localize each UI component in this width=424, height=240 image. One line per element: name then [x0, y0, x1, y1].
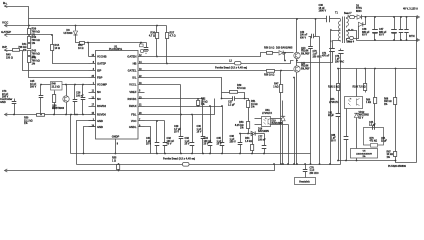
svg-text:22 V: 22 V — [359, 117, 364, 119]
svg-text:R70: R70 — [370, 138, 375, 140]
svg-text:NC: NC — [97, 97, 101, 101]
svg-text:25 V: 25 V — [174, 131, 179, 134]
wire VREF net — [145, 98, 203, 100]
svg-text:2.2 µF: 2.2 µF — [228, 103, 235, 106]
junction dot Q13 drain on B+ rail — [296, 18, 298, 20]
diode D9 bootstrap — [140, 43, 144, 53]
svg-text:GATEL: GATEL — [128, 69, 137, 73]
wire gate bypass branch — [284, 52, 286, 62]
wire secondary pin 13 to bead4 — [347, 39, 350, 41]
wire VCOMP net — [41, 84, 89, 86]
svg-text:250 V: 250 V — [230, 141, 237, 144]
capacitor C26 — [73, 85, 84, 115]
svg-text:ISL: ISL — [132, 76, 137, 80]
svg-text:D20 BAV19WS: D20 BAV19WS — [276, 47, 293, 50]
svg-text:Q13: Q13 — [301, 48, 306, 50]
transistor Q13 — [294, 19, 310, 66]
node GATEP connector — [1, 30, 11, 36]
wire VCCL net — [145, 84, 181, 86]
svg-text:ISP: ISP — [97, 69, 102, 73]
svg-text:PI-5428-050809: PI-5428-050809 — [388, 165, 407, 168]
op-amp U1 PLC810PG controller IC body — [96, 45, 139, 139]
wire controller ground rail right — [45, 114, 89, 116]
wire FBL net — [145, 99, 215, 115]
svg-text:FBL: FBL — [131, 113, 137, 117]
resistor R37 — [166, 26, 176, 65]
svg-text:VCCL: VCCL — [129, 83, 137, 87]
capacitor C79 — [308, 37, 322, 165]
capacitor C78 — [303, 165, 319, 178]
pin 15 RSVD0 of U1 — [89, 113, 107, 117]
pin 25 FBP of U1 — [89, 76, 103, 80]
svg-text:GNDP: GNDP — [112, 134, 120, 138]
wire GATEL net — [145, 70, 267, 72]
capacitor C71 resonant — [297, 41, 341, 63]
svg-text:GND: GND — [0, 100, 6, 104]
svg-text:25 V: 25 V — [217, 143, 222, 146]
wire reference bus — [339, 160, 396, 162]
wire main bottom ground bus — [77, 164, 341, 166]
diode D3 — [355, 6, 363, 20]
svg-text:50 V: 50 V — [331, 140, 336, 142]
wire B+ rail — [29, 18, 327, 20]
svg-text:200 V: 200 V — [30, 86, 37, 89]
svg-text:GATEH: GATEH — [127, 55, 136, 59]
wire GND pin 2 return — [70, 114, 72, 154]
svg-text:FB16N: FB16N — [301, 51, 309, 53]
resistor R43 — [28, 50, 40, 59]
svg-text:LTV817A: LTV817A — [262, 112, 272, 115]
wire sense column — [293, 77, 295, 165]
svg-text:R58 10 Ω: R58 10 Ω — [264, 74, 274, 77]
svg-text:1 Ω: 1 Ω — [112, 159, 116, 162]
capacitor C34 — [204, 107, 213, 154]
svg-text:C88: C88 — [331, 135, 336, 137]
svg-text:182 kΩ: 182 kΩ — [384, 101, 392, 103]
pin 16 VCCL of U1 — [129, 83, 144, 87]
capacitor C40 — [300, 31, 316, 39]
resistor R36 — [149, 26, 159, 58]
svg-text:ISP: ISP — [2, 45, 7, 49]
svg-text:FBP: FBP — [97, 76, 103, 80]
wire VCC net — [145, 120, 165, 122]
pin 7 VCC of U1 — [131, 119, 145, 123]
svg-text:R102 2 kΩ: R102 2 kΩ — [328, 87, 339, 89]
svg-text:25 V: 25 V — [204, 143, 209, 146]
wire RTN rail — [357, 40, 417, 42]
wire inner ground line — [71, 153, 311, 155]
diode D19 — [272, 101, 286, 165]
svg-text:10 Ω: 10 Ω — [78, 47, 83, 50]
node ISP connector — [2, 45, 7, 51]
svg-text:C76: C76 — [335, 56, 340, 58]
pin 9 GNDL of U1 — [129, 125, 145, 129]
wire bootstrap — [85, 42, 147, 44]
svg-text:NC: NC — [97, 90, 101, 94]
svg-text:R67: R67 — [387, 152, 392, 154]
wire output sense column — [416, 17, 418, 163]
wire secondary pin 7 to bead — [347, 17, 350, 18]
svg-text:GND: GND — [97, 125, 103, 129]
svg-text:R56 10 Ω: R56 10 Ω — [264, 47, 274, 50]
svg-text:2%: 2% — [362, 156, 365, 158]
node 48V output — [403, 8, 420, 19]
svg-text:VCCHB: VCCHB — [97, 55, 107, 59]
capacitor C77 — [258, 134, 266, 154]
svg-text:63 V: 63 V — [379, 34, 384, 37]
svg-text:VCC: VCC — [131, 119, 137, 123]
resistor R46 — [28, 57, 40, 66]
svg-text:8R06: 8R06 — [356, 11, 362, 13]
svg-text:VREF: VREF — [129, 90, 137, 94]
pin 8 GATEP of U1 — [89, 62, 107, 66]
svg-text:Ferrite Bead (3.5 x 4.45 ea): Ferrite Bead (3.5 x 4.45 ea) — [163, 156, 195, 160]
capacitor C30 — [197, 98, 206, 153]
pin 14 HB of U1 — [133, 61, 145, 66]
svg-text:2.2 µF: 2.2 µF — [369, 125, 376, 127]
resistor R41 — [18, 43, 30, 52]
svg-text:D18: D18 — [258, 129, 263, 131]
svg-text:50LPBF: 50LPBF — [301, 68, 310, 70]
svg-text:63 V: 63 V — [362, 34, 367, 37]
capacitor C76 — [335, 49, 344, 165]
svg-text:Heatsink: Heatsink — [299, 181, 310, 184]
wire controller ground rail — [5, 114, 37, 116]
svg-text:R68: R68 — [384, 99, 389, 101]
resistor R47 1k gate pulldown — [273, 70, 282, 165]
svg-text:100 nF: 100 nF — [258, 138, 266, 141]
pin 12 NC of U1 — [89, 97, 101, 101]
diode D8 — [64, 25, 78, 35]
capacitor C27 — [222, 93, 249, 107]
wire bulk rail drop — [315, 18, 320, 164]
svg-text:630 V: 630 V — [300, 37, 306, 39]
pin 17 RSVD2 of U1 — [89, 104, 107, 108]
wire VCC rail — [5, 25, 167, 27]
wire GND pin 19b return — [83, 127, 96, 155]
wire secondary center tap to RTN — [347, 31, 357, 41]
svg-text:B+: B+ — [3, 1, 7, 5]
svg-text:FB16N: FB16N — [301, 66, 309, 68]
resistor R100 — [353, 69, 367, 91]
diode D18 — [241, 129, 270, 136]
zener diode VR12 — [354, 112, 369, 161]
transistor Q20 — [52, 85, 69, 115]
svg-text:48 V, 3.125 A: 48 V, 3.125 A — [403, 8, 418, 11]
pin 20 FBL of U1 — [131, 113, 144, 117]
resistor R58 — [264, 70, 294, 77]
svg-text:VCC: VCC — [2, 21, 9, 25]
wire C36 to transformer — [330, 18, 341, 20]
svg-text:10 kΩ: 10 kΩ — [387, 154, 393, 156]
junction dots ground rail — [13, 114, 15, 116]
svg-text:STTH: STTH — [356, 8, 362, 10]
svg-text:1.8 kΩ: 1.8 kΩ — [245, 140, 252, 143]
pin 12 GATEH of U1 — [127, 55, 144, 59]
wire GATEH net — [145, 53, 267, 57]
heatsink box — [295, 178, 316, 185]
svg-text:Bead 7: Bead 7 — [344, 13, 352, 15]
wire mid column — [288, 125, 290, 165]
ferrite bead Bead4 — [347, 37, 355, 44]
junction dots ground bus — [156, 153, 158, 155]
junction dot half-bridge node — [296, 60, 298, 62]
pin 13 VCCHB of U1 — [89, 55, 107, 59]
pin 23 RSVD1 of U1 — [128, 97, 145, 101]
svg-text:1 nF: 1 nF — [310, 170, 315, 172]
optocoupler U3A primary side — [255, 109, 289, 127]
pin 8 GNDP stub of U1 — [115, 139, 119, 155]
svg-text:PLC810PG: PLC810PG — [109, 47, 122, 51]
wire ISL net — [145, 78, 222, 93]
svg-text:25 V: 25 V — [146, 143, 151, 146]
capacitor C24 — [81, 85, 86, 115]
wire 48V output rail — [362, 16, 417, 18]
svg-text:C71: C71 — [322, 53, 327, 55]
resistor R48 — [51, 82, 63, 115]
wire R100 to zener bus — [365, 91, 367, 93]
svg-text:57.6 kΩ: 57.6 kΩ — [237, 87, 246, 90]
resistor R55 — [112, 157, 120, 172]
ferrite bead L2 — [229, 60, 294, 65]
svg-text:25 V: 25 V — [185, 143, 190, 146]
pin 10 GATEL of U1 — [128, 69, 145, 73]
wire bead4 up to D3 lower anode — [354, 25, 359, 39]
resistor R39 — [28, 19, 40, 37]
capacitor C47 — [379, 17, 397, 41]
capacitor C32 — [163, 121, 175, 154]
svg-text:Q20: Q20 — [52, 106, 57, 108]
wire HB pin net — [145, 63, 235, 65]
wire primary tap pin 9 — [331, 31, 341, 165]
svg-text:FMAX: FMAX — [129, 104, 137, 108]
junction dots ground bus Q — [280, 163, 282, 165]
svg-text:1 kΩ: 1 kΩ — [273, 85, 278, 88]
junction dots RTN rail — [374, 39, 376, 41]
resistor R40 — [28, 36, 40, 45]
capacitor C48 — [362, 17, 378, 41]
pin 1 VCOMP of U1 — [89, 83, 108, 87]
svg-text:C79: C79 — [313, 51, 318, 53]
capacitor C35 — [217, 107, 225, 154]
junction dots output rail — [374, 16, 376, 18]
capacitor C50 — [404, 17, 408, 41]
capacitor C31 — [146, 121, 159, 154]
resistor R45 — [5, 49, 20, 60]
resistor R66 — [366, 69, 377, 127]
svg-text:22 µF: 22 µF — [328, 115, 335, 117]
transistor Q11 — [294, 63, 310, 165]
svg-text:150 Ω: 150 Ω — [6, 56, 13, 59]
pin 5 VREF of U1 — [129, 90, 144, 94]
svg-text:50 V: 50 V — [167, 143, 172, 146]
svg-text:R100 7.5 kΩ: R100 7.5 kΩ — [353, 87, 366, 89]
svg-text:4.7 Ω: 4.7 Ω — [170, 34, 176, 37]
capacitor C33 — [185, 115, 195, 154]
pin 11 NC of U1 — [89, 90, 101, 94]
capacitor C41 — [328, 91, 340, 161]
capacitor C49 — [399, 17, 403, 41]
svg-text:22 µF: 22 µF — [381, 141, 388, 143]
svg-text:GATEP: GATEP — [1, 30, 11, 34]
node VCC connector — [2, 21, 9, 27]
svg-text:HB: HB — [133, 62, 137, 66]
svg-text:22.1 kΩ: 22.1 kΩ — [52, 86, 60, 88]
svg-text:1600 V: 1600 V — [319, 10, 327, 13]
capacitor C25 — [30, 80, 43, 115]
pin 19 GND of U1 — [89, 125, 104, 129]
capacitor C73 — [2, 90, 16, 115]
pin 21 FMAX of U1 — [129, 104, 145, 108]
svg-text:GND: GND — [97, 119, 103, 123]
resistor R50 — [24, 114, 45, 126]
capacitor C38 — [230, 133, 243, 154]
node bottom return connector — [5, 169, 8, 172]
svg-text:50LPBF: 50LPBF — [301, 53, 310, 55]
svg-text:1%: 1% — [387, 157, 390, 159]
svg-text:1 µF: 1 µF — [313, 54, 318, 56]
resistor R68 — [384, 69, 397, 152]
svg-text:UF4003: UF4003 — [64, 32, 74, 35]
pin 2 GND of U1 — [89, 119, 104, 123]
ground symbol at C28 — [143, 50, 149, 53]
resistor R42 — [76, 35, 85, 50]
node B+ input connector — [3, 1, 7, 7]
junction dots VCC rail — [28, 25, 30, 27]
svg-text:16 V: 16 V — [197, 131, 202, 134]
resistor R67 — [387, 152, 417, 163]
svg-text:VCOMP: VCOMP — [97, 83, 107, 87]
wire bottom return — [5, 165, 275, 171]
diode D3 lower half — [358, 16, 366, 27]
node Controller GND connector — [0, 97, 12, 116]
optocoupler U3B secondary side — [329, 97, 363, 109]
node RTN output — [409, 34, 420, 42]
transformer T1 — [330, 12, 354, 44]
capacitor C29 — [174, 85, 183, 154]
wire B+ to rail — [5, 7, 29, 19]
svg-text:1%: 1% — [384, 104, 387, 106]
svg-text:Q11: Q11 — [301, 63, 306, 65]
svg-text:D19: D19 — [272, 121, 277, 123]
svg-text:1 kΩ: 1 kΩ — [366, 102, 371, 104]
svg-text:Ferrite Bead (3.5 x 4.45 ea): Ferrite Bead (3.5 x 4.45 ea) — [215, 66, 247, 70]
svg-text:GNDL: GNDL — [129, 125, 137, 129]
capacitor C36 — [319, 4, 330, 22]
resistor R51 — [247, 100, 258, 122]
diode D20 — [273, 47, 294, 56]
pin 22 ISL of U1 — [132, 76, 144, 80]
svg-text:1 µF: 1 µF — [335, 59, 340, 61]
resistor R44 — [51, 35, 89, 64]
svg-text:1 µF: 1 µF — [331, 138, 336, 140]
svg-text:Controller: Controller — [0, 97, 12, 101]
resistor R53 — [235, 121, 250, 134]
ferrite bead Bead7 — [344, 13, 355, 19]
wire GATEP line — [5, 34, 53, 36]
resistor R56 — [264, 47, 274, 55]
ferrite bead on ground bus — [163, 156, 195, 166]
svg-text:RSVD2: RSVD2 — [97, 104, 106, 108]
pin 3 ISP of U1 — [89, 69, 102, 73]
capacitor C88 — [331, 109, 348, 161]
resistor R54 — [245, 133, 254, 154]
svg-text:10 Ω: 10 Ω — [55, 47, 60, 50]
svg-text:VR12: VR12 — [359, 112, 365, 114]
shunt reference U5 — [351, 149, 378, 159]
resistor R102 — [328, 69, 340, 91]
wire divider corner down — [356, 69, 358, 97]
capacitor C28 — [144, 43, 149, 50]
wire feedback divider line — [339, 68, 417, 70]
svg-text:R66: R66 — [366, 100, 371, 102]
svg-text:100 nF: 100 nF — [300, 35, 308, 37]
wire FMAX net — [145, 106, 223, 108]
svg-text:RSVD1: RSVD1 — [128, 97, 137, 101]
svg-text:4.7 Ω: 4.7 Ω — [149, 34, 155, 37]
wire GND pin 19 return — [76, 114, 95, 165]
svg-text:C78: C78 — [310, 168, 315, 170]
wire divider to FBP pin — [29, 63, 89, 78]
resistor R49 — [222, 84, 246, 99]
svg-text:MMBT3906: MMBT3906 — [52, 108, 65, 110]
wire ISP to pin — [20, 51, 89, 71]
svg-text:RSVD0: RSVD0 — [97, 113, 106, 117]
capacitor C44 loop — [364, 121, 388, 147]
svg-text:RTN: RTN — [409, 34, 415, 38]
resistor R52 — [197, 98, 208, 107]
wire VCCHB pin feed — [88, 43, 90, 57]
wire GNDL net — [145, 127, 151, 154]
svg-text:GATEP: GATEP — [97, 62, 106, 66]
